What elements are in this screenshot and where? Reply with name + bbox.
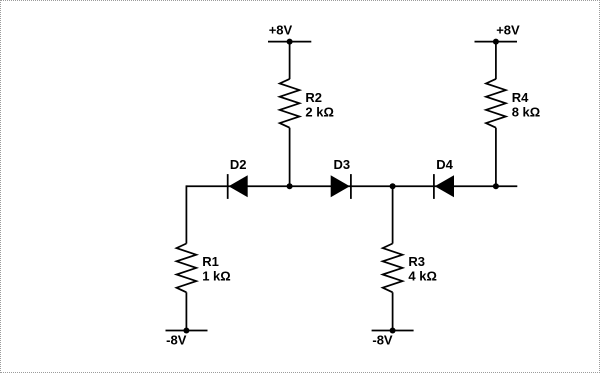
junction dot at -8V left (183, 328, 189, 334)
svg-text:D4: D4 (436, 157, 453, 172)
junction dot at -8V right (390, 328, 396, 334)
node +8V (right) supply bar (475, 41, 518, 43)
svg-text:R4: R4 (512, 90, 529, 105)
junction dot main rail / R2 (287, 183, 293, 189)
svg-text:R2: R2 (305, 90, 322, 105)
diode D2 cathode bar (227, 174, 229, 199)
resistor R2 (280, 79, 300, 128)
node -8V (right) supply bar (372, 330, 414, 332)
wire middle junction down to R3 (392, 186, 394, 243)
diode D3 cathode bar (350, 174, 352, 199)
wire from +8V bar to R4 (495, 42, 497, 80)
wire R3 bottom to -8V bar (392, 292, 394, 330)
svg-text:+8V: +8V (269, 22, 293, 37)
wire left corner down to R1 (185, 185, 187, 243)
svg-text:8 kΩ: 8 kΩ (512, 105, 541, 120)
wire from +8V bar to R2 (289, 42, 291, 80)
svg-text:R1: R1 (202, 254, 219, 269)
resistor R1 (177, 244, 197, 293)
node +8V (left) supply bar (268, 41, 311, 43)
svg-text:-8V: -8V (372, 332, 393, 347)
diode D3 triangle (points right) (331, 175, 350, 197)
diode D4 cathode bar (433, 174, 435, 199)
diode D4 triangle (points left) (435, 175, 454, 197)
junction dot at +8V right (493, 39, 499, 45)
svg-text:1 kΩ: 1 kΩ (202, 268, 231, 283)
svg-text:+8V: +8V (496, 22, 520, 37)
wire main horizontal rail (186, 185, 517, 187)
diode D2 triangle (points left) (229, 175, 248, 197)
wire R1 bottom to -8V bar (185, 292, 187, 330)
junction dot main rail / R3 (390, 183, 396, 189)
wire R2 bottom to main node (289, 128, 291, 187)
junction dot main rail / R4 (493, 183, 499, 189)
junction dot at +8V left (287, 39, 293, 45)
svg-text:4 kΩ: 4 kΩ (408, 268, 437, 283)
resistor R4 (486, 79, 506, 128)
svg-text:-8V: -8V (166, 332, 187, 347)
svg-text:D3: D3 (333, 157, 350, 172)
resistor R3 (383, 244, 403, 293)
svg-text:2 kΩ: 2 kΩ (305, 105, 334, 120)
node -8V (left) supply bar (166, 330, 208, 332)
svg-text:R3: R3 (408, 254, 425, 269)
svg-text:D2: D2 (230, 157, 247, 172)
wire R4 bottom to main rail (495, 128, 497, 187)
